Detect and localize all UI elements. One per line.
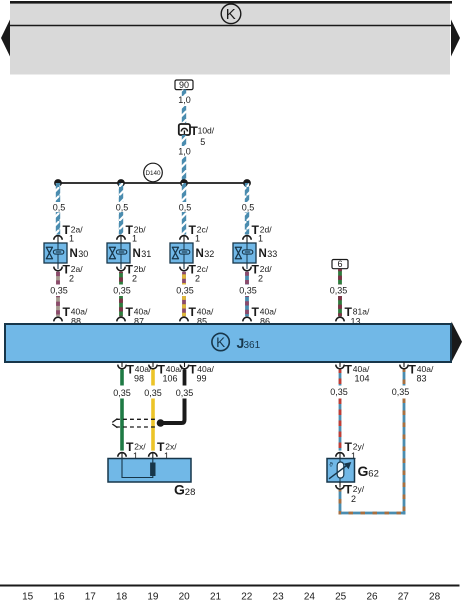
svg-text:N: N bbox=[196, 248, 204, 260]
wire: bus to N32 (blue/white, 0.5) bbox=[182, 183, 186, 202]
svg-text:0,35: 0,35 bbox=[176, 388, 194, 398]
wire: T10d to distribution node (blue/white, 1.0) bbox=[182, 135, 186, 146]
junction dot 4 bbox=[243, 179, 251, 187]
svg-text:T: T bbox=[189, 305, 197, 319]
svg-text:28: 28 bbox=[429, 592, 441, 600]
svg-text:40a/: 40a/ bbox=[260, 307, 277, 317]
svg-text:2: 2 bbox=[258, 273, 263, 283]
svg-text:1: 1 bbox=[132, 233, 137, 243]
connector T40a/99 bbox=[180, 362, 214, 384]
svg-text:25: 25 bbox=[335, 592, 347, 600]
connector T10d/5 bbox=[179, 124, 215, 147]
svg-text:2: 2 bbox=[69, 273, 74, 283]
wire: J361 pin 106 to G28 (yellow, 0.35) bbox=[151, 370, 155, 386]
svg-text:40a/: 40a/ bbox=[417, 364, 434, 374]
svg-text:31: 31 bbox=[141, 249, 151, 259]
svg-text:0,35: 0,35 bbox=[392, 387, 410, 397]
svg-text:81a/: 81a/ bbox=[353, 307, 370, 317]
svg-text:0,5: 0,5 bbox=[116, 203, 129, 213]
svg-text:30: 30 bbox=[78, 249, 88, 259]
svg-text:16: 16 bbox=[53, 592, 65, 600]
wire: loop bottom (blue/brown) bbox=[339, 512, 406, 515]
control unit J361 bbox=[5, 322, 462, 363]
bus wire (positive distribution) bbox=[58, 182, 247, 184]
svg-text:0,35: 0,35 bbox=[144, 388, 162, 398]
connector T40a/86 bbox=[243, 305, 277, 326]
svg-text:0,35: 0,35 bbox=[113, 388, 131, 398]
connector T2x/1 (green) bbox=[118, 440, 146, 461]
wire: N33 to J361 pin 86 (0.35) bbox=[245, 272, 249, 285]
current flow track banner bbox=[10, 1, 452, 75]
svg-text:T: T bbox=[252, 305, 260, 319]
svg-text:0,35: 0,35 bbox=[113, 286, 131, 296]
svg-text:1: 1 bbox=[195, 233, 200, 243]
svg-text:1,0: 1,0 bbox=[178, 147, 191, 157]
wire: J361 pin 83 to loop (blue/brown, 0.35) bbox=[403, 370, 406, 386]
svg-text:28: 28 bbox=[185, 487, 196, 498]
connector T40a/83 bbox=[400, 362, 434, 384]
svg-text:90: 90 bbox=[179, 80, 189, 90]
shield connection dot bbox=[157, 419, 165, 427]
wire: J361 pin 98 to G28 (green, 0.35) bbox=[120, 370, 124, 386]
svg-text:0,35: 0,35 bbox=[176, 286, 194, 296]
svg-text:18: 18 bbox=[116, 592, 128, 600]
svg-text:N: N bbox=[133, 248, 141, 260]
connector T2c/2 bbox=[180, 263, 209, 284]
wire: bus to N31 (blue/white, 0.5) bbox=[119, 183, 123, 202]
svg-text:K: K bbox=[226, 6, 236, 23]
svg-text:83: 83 bbox=[416, 374, 426, 384]
svg-text:0,35: 0,35 bbox=[330, 286, 348, 296]
svg-text:32: 32 bbox=[204, 249, 214, 259]
connector T40a/104 bbox=[336, 362, 370, 384]
svg-text:22: 22 bbox=[241, 592, 253, 600]
svg-text:26: 26 bbox=[366, 592, 378, 600]
svg-text:40a/: 40a/ bbox=[197, 307, 214, 317]
junction dot 2 bbox=[117, 179, 125, 187]
connector T2d/2 bbox=[243, 263, 272, 284]
right arrow bbox=[451, 20, 460, 57]
svg-text:2: 2 bbox=[195, 273, 200, 283]
svg-text:361: 361 bbox=[244, 340, 261, 351]
svg-text:0,5: 0,5 bbox=[179, 203, 192, 213]
svg-text:1,0: 1,0 bbox=[178, 95, 191, 105]
connector T40a/98 bbox=[118, 362, 152, 384]
sender G28 (engine speed) bbox=[108, 459, 195, 498]
svg-text:T: T bbox=[409, 363, 417, 377]
svg-text:40a/: 40a/ bbox=[71, 307, 88, 317]
svg-text:27: 27 bbox=[398, 592, 410, 600]
connector T40a/85 bbox=[180, 305, 214, 326]
wire: bus to N30 (blue/white, 0.5) bbox=[56, 183, 60, 202]
svg-text:62: 62 bbox=[368, 468, 379, 479]
connector T40a/87 bbox=[117, 305, 151, 326]
svg-text:G: G bbox=[358, 463, 369, 479]
svg-text:T: T bbox=[63, 305, 71, 319]
svg-text:40a/: 40a/ bbox=[353, 364, 370, 374]
svg-text:23: 23 bbox=[273, 592, 285, 600]
wire: bus to N33 (blue/white, 0.5) bbox=[245, 183, 249, 202]
svg-text:T: T bbox=[126, 305, 134, 319]
svg-text:D140: D140 bbox=[145, 170, 161, 177]
connector T2y/2 bbox=[336, 482, 365, 504]
junction dot 3 bbox=[180, 179, 188, 187]
svg-text:1: 1 bbox=[258, 233, 263, 243]
sender G62 (coolant temperature) bbox=[327, 459, 379, 483]
connector T2d/1 bbox=[243, 223, 272, 243]
svg-text:T: T bbox=[345, 363, 353, 377]
connector T81a/13 bbox=[336, 305, 370, 326]
connector T2a/2 bbox=[54, 263, 83, 284]
wire: J361 pin 99 to shield (black, 0.35) bbox=[183, 370, 187, 386]
connector T2x/1 (yellow) bbox=[149, 440, 178, 461]
svg-text:N: N bbox=[70, 248, 78, 260]
terminal 6 box bbox=[332, 259, 348, 269]
connector T2c/1 bbox=[180, 223, 209, 243]
svg-text:98: 98 bbox=[134, 374, 144, 384]
svg-text:5: 5 bbox=[200, 137, 205, 147]
svg-text:K: K bbox=[216, 335, 225, 350]
junction dot 1 bbox=[54, 179, 62, 187]
svg-text:106: 106 bbox=[162, 374, 177, 384]
injection valve N31 bbox=[107, 243, 151, 267]
node D140 (wiring junction) bbox=[144, 163, 163, 182]
wire: N32 to J361 pin 85 (0.35) bbox=[182, 272, 186, 285]
svg-text:40a/: 40a/ bbox=[134, 307, 151, 317]
svg-text:0,35: 0,35 bbox=[50, 286, 68, 296]
connector T2b/1 bbox=[117, 223, 146, 243]
svg-text:G: G bbox=[174, 482, 185, 498]
svg-text:0,5: 0,5 bbox=[53, 203, 66, 213]
wire: G62 to loop (blue/brown) bbox=[339, 490, 342, 515]
svg-text:15: 15 bbox=[22, 592, 34, 600]
svg-text:20: 20 bbox=[179, 592, 191, 600]
svg-text:24: 24 bbox=[304, 592, 316, 600]
wire: N30 to J361 pin 88 (0.35) bbox=[56, 272, 60, 285]
left arrow bbox=[1, 20, 10, 57]
svg-text:0,35: 0,35 bbox=[239, 286, 257, 296]
svg-text:2: 2 bbox=[351, 494, 356, 504]
bottom ruler line bbox=[0, 585, 460, 587]
injection valve N30 bbox=[44, 243, 88, 267]
connector T2a/1 bbox=[54, 223, 83, 243]
svg-text:10d/: 10d/ bbox=[198, 126, 215, 136]
svg-text:1: 1 bbox=[69, 233, 74, 243]
svg-text:6: 6 bbox=[337, 259, 342, 269]
wire: J361 pin 104 to G62 (blue/red, 0.35) bbox=[339, 370, 342, 386]
connector T2b/2 bbox=[117, 263, 146, 284]
wire: terminal 90 to T10d (blue/white, 1.0) bbox=[182, 90, 186, 97]
svg-text:19: 19 bbox=[147, 592, 159, 600]
connector T2y/1 bbox=[336, 440, 365, 461]
svg-text:ϑ: ϑ bbox=[329, 462, 333, 469]
connector T40a/88 bbox=[54, 305, 88, 326]
svg-text:17: 17 bbox=[85, 592, 97, 600]
svg-text:2: 2 bbox=[132, 273, 137, 283]
connector T40a/106 bbox=[149, 362, 183, 384]
terminal 90 box bbox=[175, 80, 193, 90]
svg-text:104: 104 bbox=[354, 374, 369, 384]
injection valve N33 bbox=[233, 243, 277, 267]
svg-text:40a/: 40a/ bbox=[197, 364, 214, 374]
terminal K circle (banner) bbox=[221, 4, 241, 24]
injection valve N32 bbox=[170, 243, 214, 267]
svg-text:2y/: 2y/ bbox=[353, 484, 365, 494]
svg-text:0,5: 0,5 bbox=[242, 203, 255, 213]
svg-text:N: N bbox=[259, 248, 267, 260]
wire: N31 to J361 pin 87 (0.35) bbox=[119, 272, 123, 285]
wire: terminal 6 to J361 pin 13 (green/red, 0.35) bbox=[338, 269, 342, 285]
svg-text:21: 21 bbox=[210, 592, 222, 600]
svg-text:0,35: 0,35 bbox=[330, 387, 348, 397]
svg-text:99: 99 bbox=[196, 374, 206, 384]
cable shield (dashed) bbox=[112, 419, 157, 428]
svg-text:33: 33 bbox=[267, 249, 277, 259]
